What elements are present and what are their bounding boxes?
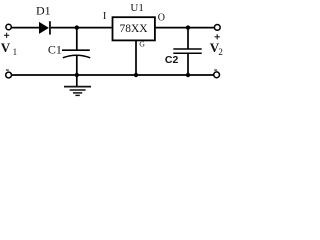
- diode D1 cathode bar: [49, 21, 51, 34]
- node C junction (C1 at bottom rail): [75, 73, 79, 77]
- node E junction (G pin at bottom rail): [134, 73, 138, 77]
- svg-text:1: 1: [13, 47, 18, 57]
- svg-text:U1: U1: [130, 2, 143, 14]
- terminal V2+ (top-right open circle): [214, 25, 220, 31]
- capacitor C2 bottom plate: [173, 52, 201, 54]
- wire: diode cathode to node A: [51, 27, 77, 29]
- minus sign at V1-: [6, 69, 9, 70]
- terminal V1+ (top-left open circle): [6, 24, 11, 29]
- plus sign at V1: [4, 33, 9, 38]
- diode D1 triangle: [39, 22, 49, 34]
- minus sign at V2-: [214, 69, 217, 70]
- ground symbol: [64, 87, 91, 96]
- wire: node B to terminal V2+: [188, 27, 214, 29]
- wire: C1 bottom lead down through rail to ground: [76, 56, 78, 87]
- svg-text:I: I: [103, 11, 107, 22]
- capacitor C1 top plate: [62, 49, 90, 51]
- svg-text:G: G: [139, 40, 145, 49]
- wire: C1 top lead: [76, 28, 78, 51]
- plus sign at V2: [215, 34, 220, 39]
- node D junction (C2 at bottom rail): [186, 73, 190, 77]
- svg-text:V: V: [1, 40, 11, 55]
- capacitor C1 curved plate: [63, 55, 90, 58]
- svg-text:C2: C2: [165, 54, 179, 66]
- wire: node A to regulator input: [77, 27, 112, 29]
- svg-text:2: 2: [218, 47, 223, 57]
- capacitor C2 top plate: [173, 48, 201, 50]
- wire: C2 top lead: [187, 28, 189, 50]
- terminal V2- (bottom-right open circle): [214, 72, 220, 78]
- wire: C2 bottom lead: [187, 53, 189, 75]
- wire: regulator output to node B: [154, 27, 188, 29]
- svg-text:O: O: [158, 13, 165, 24]
- svg-text:78XX: 78XX: [119, 23, 148, 35]
- op-amp U1 regulator box: [113, 17, 155, 40]
- wire: regulator G pin down to bottom rail: [135, 40, 137, 75]
- svg-text:C1: C1: [48, 43, 62, 57]
- node A junction (top of C1): [75, 25, 79, 29]
- node B junction (top of C2): [186, 25, 190, 29]
- wire: bottom rail: [12, 74, 214, 76]
- terminal V1- (bottom-left open circle): [6, 72, 12, 78]
- wire: V1+ to diode anode: [11, 27, 39, 29]
- svg-text:D1: D1: [36, 3, 51, 17]
